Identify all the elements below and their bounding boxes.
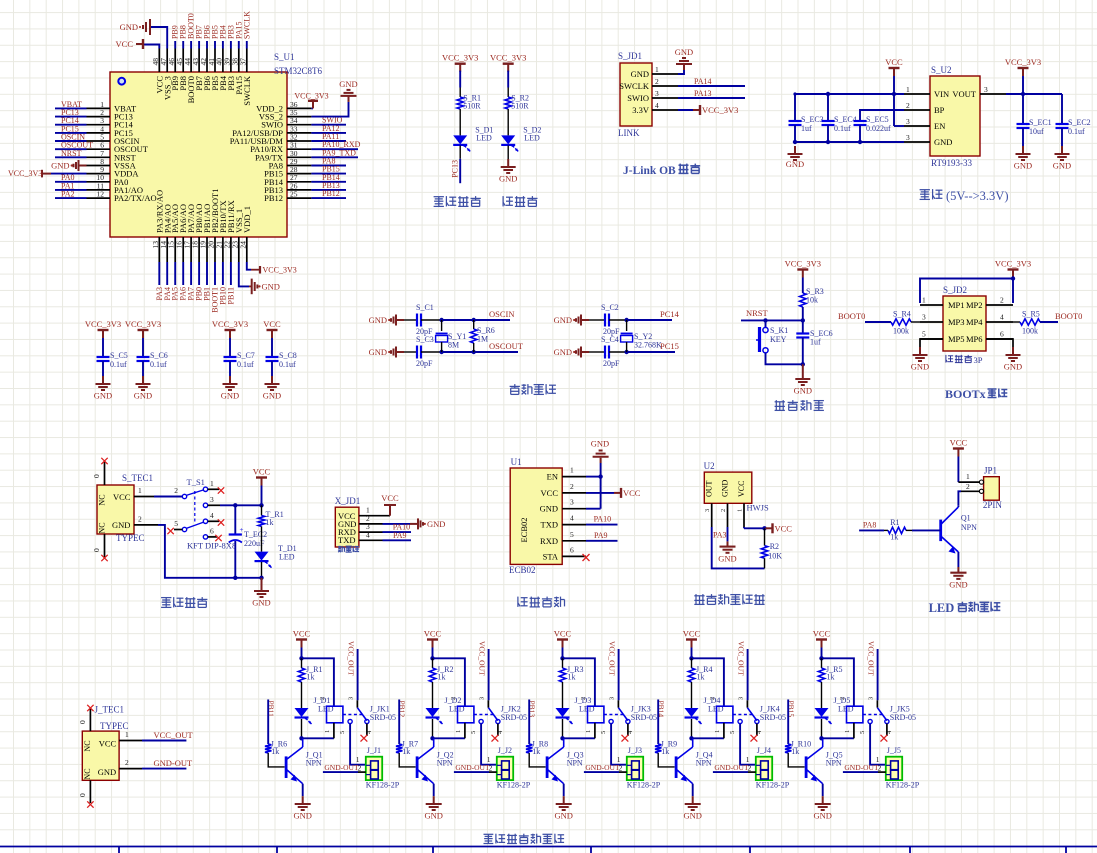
S_JD1 pin 2 SWCLK — [619, 77, 678, 91]
svg-text:1k: 1k — [271, 747, 279, 756]
svg-text:PA8: PA8 — [863, 521, 877, 530]
net PB15 — [787, 700, 796, 745]
svg-text:6: 6 — [570, 545, 574, 554]
U1 pin 20 PB2/BOOT1 — [206, 189, 220, 313]
U1 pin 4 TXD — [541, 514, 586, 530]
svg-text:NC: NC — [98, 494, 107, 505]
svg-text:1k: 1k — [568, 673, 576, 682]
S_U2 pin EN — [904, 117, 945, 131]
svg-text:37: 37 — [239, 58, 248, 66]
U1 pin36 vcc — [294, 91, 328, 108]
svg-text:S_K1: S_K1 — [770, 326, 788, 335]
svg-text:PA2/TX/AO: PA2/TX/AO — [114, 193, 157, 203]
U1 pin 6 OSCOUT — [55, 141, 149, 155]
capacitor S_C2 — [601, 303, 627, 336]
svg-text:2: 2 — [1000, 296, 1004, 305]
S_JD1 pin2 PA14 — [678, 77, 745, 86]
gnd bluetooth — [591, 438, 609, 463]
U1 pin 8 VSSA — [87, 157, 137, 171]
connector S_TEC1 body — [97, 473, 153, 543]
svg-text:VCC_3V3: VCC_3V3 — [702, 105, 738, 115]
net PB14 — [657, 700, 666, 745]
svg-text:4: 4 — [210, 511, 214, 520]
caption power 5V-3.3V — [920, 189, 1009, 203]
svg-text:1k: 1k — [827, 673, 835, 682]
svg-text:PB11: PB11 — [226, 287, 235, 305]
U1 pin 5 OSCIN — [55, 133, 140, 147]
svg-text:VCC_3V3: VCC_3V3 — [294, 91, 328, 100]
relay coil J_JK1 — [319, 697, 396, 739]
gnd relay 3 — [554, 796, 572, 820]
svg-text:VCC: VCC — [381, 493, 399, 503]
svg-text:(5V-->3.3V): (5V-->3.3V) — [946, 189, 1008, 203]
U1 pin 25 PB12 — [264, 189, 346, 203]
svg-text:GND: GND — [949, 580, 967, 590]
resistor S_R4 — [838, 310, 920, 336]
U1 pin 9 VDDA — [87, 165, 140, 179]
svg-text:PA10: PA10 — [594, 515, 612, 524]
svg-text:VCC_3V3: VCC_3V3 — [263, 266, 297, 275]
U1 pin 37 SWCLK — [239, 11, 252, 106]
S_U2 pin GND — [904, 133, 952, 147]
resistor S_R6 — [471, 320, 495, 352]
U2 pin GND — [718, 503, 736, 563]
svg-text:LINK: LINK — [618, 128, 640, 138]
svg-text:RXD: RXD — [540, 536, 558, 546]
IC U1 STM32C8T6 body — [110, 52, 323, 237]
J_TEC1 bottom nc — [78, 780, 94, 807]
svg-text:GND: GND — [631, 69, 649, 79]
S_JD2 row MP1/MP2 — [920, 296, 1013, 311]
svg-text:10k: 10k — [806, 296, 818, 305]
resistor J_R3 — [559, 658, 583, 708]
resistor J_R9 — [655, 740, 677, 767]
U1 pin35 gnd — [311, 79, 357, 117]
U1 pin 16 PA6/AO — [175, 204, 189, 300]
svg-text:GND: GND — [683, 811, 701, 821]
VCC_3V3 bootx — [995, 259, 1031, 304]
wire relay bottom 3 — [560, 736, 595, 740]
U1 pin 10 PA0 — [55, 173, 128, 187]
transistor J_Q5 — [806, 738, 842, 796]
svg-text:3: 3 — [738, 697, 745, 700]
svg-text:PC15: PC15 — [660, 341, 679, 351]
svg-text:NPN: NPN — [437, 759, 453, 768]
svg-text:3P: 3P — [974, 355, 983, 365]
svg-text:LED: LED — [476, 134, 492, 143]
U1 pin 6 STA — [543, 545, 586, 561]
svg-text:SWCLK: SWCLK — [619, 81, 650, 91]
wire bootx top loop — [920, 279, 1013, 304]
U1 pin 33 PA12/USB/DP — [232, 124, 346, 138]
svg-text:GND: GND — [221, 391, 239, 401]
svg-text:GND: GND — [293, 811, 311, 821]
svg-text:J_J2: J_J2 — [498, 746, 512, 755]
net OSCIN — [489, 309, 515, 319]
gnd relay 4 — [683, 796, 701, 820]
switch S_K1 — [756, 320, 803, 364]
terminal J_J2 — [487, 746, 531, 790]
wire relay top 3 — [563, 658, 595, 706]
svg-text:VCC: VCC — [623, 488, 641, 498]
svg-text:VCC_3V3: VCC_3V3 — [1005, 57, 1041, 67]
svg-text:S_JD2: S_JD2 — [943, 285, 967, 295]
U1 pin 40 PB4 — [215, 25, 228, 90]
VCC led lighting — [950, 438, 968, 483]
svg-text:U1: U1 — [511, 457, 522, 467]
S_U2 pin BP — [904, 101, 945, 115]
resistor J_R6 — [265, 740, 287, 767]
svg-text:1uf: 1uf — [801, 124, 812, 133]
relay switch J_JK5 contacts — [859, 641, 893, 742]
svg-text:3: 3 — [704, 509, 711, 512]
svg-text:VCC: VCC — [885, 57, 903, 67]
svg-text:8M: 8M — [448, 341, 459, 350]
svg-text:R1: R1 — [890, 518, 899, 527]
svg-text:GND: GND — [718, 554, 736, 564]
svg-text:2: 2 — [720, 509, 727, 512]
IC S_U2 RT9193-33 body — [930, 65, 980, 168]
wire relay pin5 1 — [350, 724, 366, 765]
wire EN — [586, 476, 601, 478]
caption relay control — [484, 834, 565, 844]
net PB13 — [528, 700, 537, 745]
LED indicator S_D1 — [442, 53, 493, 184]
svg-text:1: 1 — [210, 479, 214, 488]
svg-text:KF128-2P: KF128-2P — [627, 781, 661, 790]
svg-text:GND: GND — [369, 347, 387, 357]
resistor R1 led — [859, 518, 941, 542]
wire BP — [860, 110, 904, 120]
svg-text:S_C6: S_C6 — [150, 351, 168, 360]
wire relay pin5 4 — [740, 724, 756, 765]
U1 pin 15 PA5/AO — [167, 204, 181, 300]
svg-text:10uf: 10uf — [1029, 127, 1044, 136]
svg-text:10K: 10K — [768, 552, 782, 561]
svg-text:SWCLK: SWCLK — [242, 11, 251, 39]
net OSCOUT — [489, 341, 524, 351]
S_TEC1 top nc pin — [92, 458, 108, 485]
caption bluetooth — [518, 597, 565, 607]
svg-text:3: 3 — [922, 313, 926, 322]
net PC14 — [660, 309, 680, 319]
wire sw3 to vcc — [220, 503, 264, 507]
svg-text:GND: GND — [112, 520, 130, 530]
svg-text:NC: NC — [83, 740, 92, 751]
svg-text:GND: GND — [339, 79, 357, 89]
svg-text:1: 1 — [570, 466, 574, 475]
wire relay bottom 1 — [299, 736, 334, 740]
svg-text:GND: GND — [1004, 362, 1022, 372]
svg-text:NC: NC — [83, 768, 92, 779]
S_JD1 pin1 gnd — [675, 47, 693, 74]
svg-text:1: 1 — [922, 296, 926, 305]
U1 pin 1 EN — [547, 466, 586, 482]
crystal S_Y1 — [436, 320, 467, 352]
svg-text:NRST: NRST — [61, 149, 82, 158]
U1 pin 38 PA15 — [231, 22, 244, 95]
svg-text:12: 12 — [97, 190, 105, 199]
wire PC15 rail — [624, 350, 675, 354]
svg-text:J_J1: J_J1 — [367, 746, 381, 755]
svg-text:32.768K: 32.768K — [634, 341, 662, 350]
svg-text:2: 2 — [138, 515, 142, 524]
svg-text:BOOT0: BOOT0 — [1055, 311, 1082, 321]
svg-text:0.1uf: 0.1uf — [834, 124, 851, 133]
U1 pin 35 VSS_2 — [259, 108, 311, 122]
svg-text:GND: GND — [499, 174, 517, 184]
svg-text:VCC: VCC — [113, 492, 131, 502]
U1 pin24 vcc — [247, 262, 297, 275]
U1 pin 46 PB9 — [167, 25, 180, 90]
svg-text:GND: GND — [262, 281, 280, 291]
svg-text:SRD-05: SRD-05 — [760, 713, 786, 722]
svg-text:VCC_3V3: VCC_3V3 — [212, 319, 248, 329]
svg-text:J_TEC1: J_TEC1 — [95, 705, 125, 715]
svg-text:GND-OUT: GND-OUT — [455, 763, 490, 772]
svg-text:100k: 100k — [893, 327, 909, 336]
capacitor T_EC2 — [229, 505, 267, 580]
svg-text:2PIN: 2PIN — [983, 500, 1003, 510]
U1 pin 2 VCC — [541, 482, 586, 498]
net GND-OUT 3 — [584, 763, 627, 772]
U1 pin23 gnd — [239, 262, 280, 294]
svg-text:2: 2 — [450, 697, 457, 700]
capacitor S_C4 — [601, 335, 627, 368]
svg-text:5: 5 — [339, 731, 346, 734]
U1 pin 41 PB5 — [207, 25, 220, 90]
svg-text:0.022uf: 0.022uf — [866, 124, 891, 133]
svg-text:GND: GND — [98, 767, 116, 777]
terminal J_J4 — [746, 746, 790, 790]
gnd rail left U2 — [786, 140, 904, 169]
U1 pin 22 PB11/RX — [222, 200, 236, 304]
svg-text:PC13: PC13 — [451, 160, 460, 178]
S_U2 pin VIN — [904, 85, 949, 99]
X_JD1 pin1 vcc — [359, 493, 399, 516]
net GND-OUT 4 — [713, 763, 756, 772]
svg-text:TXD: TXD — [541, 520, 558, 530]
svg-text:0.1uf: 0.1uf — [279, 360, 296, 369]
svg-text:2: 2 — [839, 697, 846, 700]
U1 pin 32 PA11/USB/DM — [230, 132, 346, 146]
svg-text:0: 0 — [78, 793, 87, 797]
U1 pin 21 PB10/TX — [214, 200, 228, 304]
LED J_D3 — [556, 696, 595, 738]
svg-text:3: 3 — [906, 117, 910, 126]
svg-text:1k: 1k — [532, 747, 540, 756]
svg-text:LED: LED — [524, 134, 540, 143]
svg-text:MP2: MP2 — [966, 300, 983, 310]
svg-text:MP3: MP3 — [948, 317, 965, 327]
svg-text:MP6: MP6 — [966, 334, 983, 344]
svg-text:TYPEC: TYPEC — [116, 533, 145, 543]
svg-text:0: 0 — [92, 548, 101, 552]
svg-text:GND: GND — [813, 811, 831, 821]
resistor J_R2 — [429, 658, 453, 708]
svg-text:VCC_3V3: VCC_3V3 — [785, 259, 821, 269]
caption crystal — [510, 384, 556, 394]
svg-text:GND: GND — [540, 504, 558, 514]
U1 pin9 VDDA vcc — [8, 169, 87, 178]
svg-text:S_R5: S_R5 — [1022, 310, 1040, 319]
svg-text:NPN: NPN — [306, 759, 322, 768]
svg-text:20pF: 20pF — [416, 359, 433, 368]
transistor J_Q4 — [676, 738, 712, 796]
svg-text:VCC_OUT: VCC_OUT — [347, 641, 356, 676]
svg-text:1k: 1k — [402, 747, 410, 756]
caption J-Link — [623, 164, 700, 177]
capacitor S_EC3 — [789, 94, 824, 142]
S_JD2 row MP3/MP4 — [920, 313, 1013, 328]
S_JD1 pin3 PA13 — [678, 89, 745, 98]
svg-text:1: 1 — [138, 486, 142, 495]
connector JP1 body — [983, 466, 1003, 511]
X_JD1 pin2 gnd — [359, 514, 446, 530]
svg-text:BP: BP — [934, 105, 945, 115]
svg-text:VCC_3V3: VCC_3V3 — [995, 259, 1031, 269]
U1 pin 45 PB8 — [175, 25, 188, 90]
relay coil J_JK5 — [839, 697, 916, 739]
capacitor S_EC6 — [796, 320, 832, 366]
X_JD1 pin4 PA9 — [359, 530, 411, 540]
wire relay bottom 5 — [819, 736, 854, 740]
svg-text:S_EC1: S_EC1 — [1029, 118, 1052, 127]
svg-text:GND-OUT: GND-OUT — [844, 763, 879, 772]
U1 pin 3 PC14 — [55, 116, 134, 130]
svg-text:1k: 1k — [307, 673, 315, 682]
svg-text:GND-OUT: GND-OUT — [154, 758, 194, 768]
U1 pin 17 PA7/AO — [183, 204, 197, 300]
svg-text:GND: GND — [911, 362, 929, 372]
gnd led lighting — [949, 567, 967, 590]
svg-text:3: 3 — [906, 133, 910, 142]
svg-text:NPN: NPN — [961, 523, 977, 532]
svg-text:5: 5 — [922, 330, 926, 339]
transistor Q1 led — [941, 506, 977, 567]
svg-text:EN: EN — [547, 472, 558, 482]
svg-text:1: 1 — [655, 65, 659, 74]
svg-text:SWCLK: SWCLK — [242, 75, 252, 106]
wire OSCOUT rail — [439, 350, 518, 354]
transistor J_Q2 — [417, 738, 453, 796]
svg-text:GND-OUT: GND-OUT — [585, 763, 620, 772]
svg-text:OSCIN: OSCIN — [489, 309, 515, 319]
S_JD1 pin 3 SWIO — [627, 89, 678, 103]
resistor J_R7 — [396, 740, 418, 767]
svg-text:JP1: JP1 — [984, 466, 997, 476]
resistor J_R4 — [688, 658, 712, 708]
U1 pin48 vcc wire — [116, 39, 160, 49]
S_U2 pin VOUT — [952, 85, 1006, 99]
U1 pin 11 PA1/AO — [55, 181, 143, 195]
svg-text:J-Link OB: J-Link OB — [623, 165, 676, 177]
U1 pin 7 NRST — [55, 149, 137, 163]
svg-text:J_J5: J_J5 — [887, 746, 901, 755]
svg-text:S_TEC1: S_TEC1 — [122, 473, 153, 483]
svg-text:T_S1: T_S1 — [187, 477, 205, 487]
J_TEC1 pin2 GND-OUT — [119, 758, 193, 769]
U1 pin8 VSSA gnd — [51, 160, 86, 171]
svg-text:RT9193-33: RT9193-33 — [931, 158, 972, 168]
svg-text:0.1uf: 0.1uf — [237, 360, 254, 369]
svg-text:KEY: KEY — [770, 335, 787, 344]
U1 pin 2 PC13 — [55, 108, 133, 122]
svg-text:5: 5 — [174, 519, 178, 528]
svg-text:T_EC2: T_EC2 — [244, 530, 267, 539]
wire relay pin5 5 — [870, 724, 886, 765]
U1 pin 27 PB14 — [264, 173, 346, 187]
svg-text:GND-OUT: GND-OUT — [714, 763, 749, 772]
net GND-OUT 2 — [454, 763, 497, 772]
nc STA — [583, 554, 590, 561]
U1 pin 1 VBAT — [55, 100, 137, 114]
capacitor S_EC2 — [1053, 94, 1091, 171]
wire relay top 5 — [822, 658, 854, 706]
U2 pin OUT — [704, 503, 765, 568]
svg-text:VCC_OUT: VCC_OUT — [608, 641, 617, 676]
resistor T_R1 — [258, 505, 283, 551]
svg-text:GND: GND — [1014, 161, 1032, 171]
svg-text:S_R4: S_R4 — [893, 310, 911, 319]
svg-text:MP5: MP5 — [948, 334, 965, 344]
svg-text:TXD: TXD — [338, 535, 355, 545]
svg-text:S_C1: S_C1 — [416, 303, 434, 312]
gnd reset — [794, 364, 812, 395]
svg-text:510R: 510R — [511, 102, 529, 111]
svg-text:3: 3 — [984, 85, 988, 94]
terminal J_J1 — [356, 746, 400, 790]
svg-text:KF128-2P: KF128-2P — [366, 781, 400, 790]
svg-text:1k: 1k — [890, 533, 898, 542]
svg-text:25: 25 — [290, 190, 298, 199]
svg-text:GND: GND — [591, 438, 609, 448]
S_JD2 row MP5/MP6 — [920, 330, 1013, 345]
terminal J_J3 — [617, 746, 661, 790]
svg-text:S_U1: S_U1 — [274, 52, 295, 62]
U1 pin 34 SWIO — [261, 116, 346, 130]
svg-text:GND-OUT: GND-OUT — [324, 763, 359, 772]
svg-text:Q1: Q1 — [961, 514, 971, 523]
svg-text:4: 4 — [655, 101, 659, 110]
svg-text:S_C7: S_C7 — [237, 351, 255, 360]
U1 pin 4 PC15 — [55, 124, 133, 138]
U1 pin 14 PA4/AO — [159, 204, 173, 300]
svg-text:3: 3 — [348, 697, 355, 700]
VCC relay 5 — [813, 629, 831, 661]
gnd relay 5 — [813, 796, 831, 820]
capacitor S_EC1 — [1014, 94, 1052, 171]
svg-text:0.1uf: 0.1uf — [1068, 127, 1085, 136]
svg-text:VCC: VCC — [116, 39, 134, 49]
svg-text:VCC_OUT: VCC_OUT — [867, 641, 876, 676]
svg-text:PA14: PA14 — [694, 77, 712, 86]
VCC relay 1 — [293, 629, 311, 661]
svg-text:VCC: VCC — [813, 629, 831, 639]
svg-text:5: 5 — [600, 731, 607, 734]
svg-text:VCC_3V3: VCC_3V3 — [442, 53, 478, 63]
svg-text:GND: GND — [424, 811, 442, 821]
capacitor S_C6 — [125, 319, 168, 401]
svg-text:S_EC4: S_EC4 — [834, 115, 857, 124]
relay switch J_JK3 contacts — [600, 641, 634, 742]
svg-text:GND: GND — [1053, 161, 1071, 171]
svg-text:2: 2 — [319, 697, 326, 700]
net PC15 — [660, 341, 679, 351]
svg-text:1k: 1k — [266, 518, 274, 527]
wire VOUT rail — [1006, 92, 1062, 96]
relay switch J_JK4 contacts — [729, 641, 763, 742]
